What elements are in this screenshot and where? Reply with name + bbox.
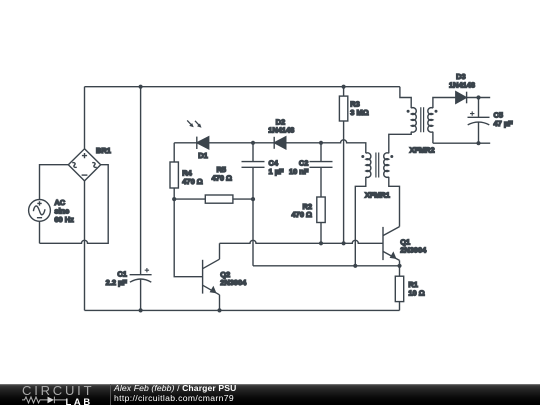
wire: XFMR2 primary bottom to XFMR1 secondary top xyxy=(389,132,411,154)
XFMR2 polarity dot secondary xyxy=(435,110,438,113)
wire: R1 bottom lead xyxy=(399,302,401,311)
node: emitter rail / R1 xyxy=(397,264,401,268)
wire: C1 top lead from top rail xyxy=(140,87,142,275)
transistor Q1 (2N3904 NPN) xyxy=(383,227,400,261)
wire: XFMR2 secondary bottom lead xyxy=(432,132,434,144)
wire: C5 top lead xyxy=(478,98,480,118)
node: D2 / C2 xyxy=(319,141,323,145)
node: base rail / R2 xyxy=(319,241,323,245)
svg-text:10 Ω: 10 Ω xyxy=(408,288,424,297)
node: top rail / R3 xyxy=(342,85,346,89)
wire: C4 bottom lead xyxy=(252,167,254,199)
wire: Q2 emitter lead xyxy=(219,295,221,311)
transformer XFMR1 xyxy=(366,153,371,177)
transformer XFMR2 primary winding xyxy=(411,108,416,133)
wire: top rail xyxy=(85,86,400,88)
svg-text:1N4148: 1N4148 xyxy=(268,125,294,134)
svg-text:3 MΩ: 3 MΩ xyxy=(350,108,368,117)
wire: XFMR1 secondary bottom to Q1 collector xyxy=(389,177,400,227)
svg-text:470 Ω: 470 Ω xyxy=(182,177,202,186)
wire: D3 cathode to output top xyxy=(467,97,491,99)
wire: R4 top lead xyxy=(173,143,175,162)
wire: AC source top lead to BR1 left vertex xyxy=(40,165,69,200)
XFMR1 polarity dot secondary xyxy=(390,155,393,158)
wire: R2 bottom lead xyxy=(320,223,322,244)
CircuitLab logo LAB xyxy=(66,397,93,405)
node: bottom rail / C1 xyxy=(139,308,143,312)
wire: C4 top lead xyxy=(252,143,254,162)
wire: C1 bottom lead xyxy=(140,279,142,310)
node: base rail / R3 xyxy=(342,241,346,245)
wire: C2 top lead xyxy=(320,143,322,162)
resistor R3 xyxy=(339,96,347,121)
wire: R1 top lead xyxy=(399,266,401,276)
svg-text:470 Ω: 470 Ω xyxy=(212,174,232,183)
footer divider xyxy=(110,384,111,405)
wire: AC source bottom lead xyxy=(39,221,41,243)
footer bar xyxy=(0,384,540,405)
capacitor C5 (polarized) xyxy=(468,111,490,125)
svg-text:1N4148: 1N4148 xyxy=(449,80,475,89)
wire: R3 top lead xyxy=(343,87,345,96)
AC source V1 xyxy=(29,200,51,222)
resistor R2 xyxy=(317,197,325,223)
transformer XFMR2 secondary winding xyxy=(428,108,433,133)
resistor R4 xyxy=(170,162,178,188)
node: D1-D2 / C4 xyxy=(251,141,255,145)
wire: output bottom rail xyxy=(433,142,490,144)
diode D2 xyxy=(274,137,286,149)
capacitor C4 xyxy=(242,162,265,168)
wire: C5 bottom lead xyxy=(478,122,480,143)
bridge rectifier BR1 xyxy=(68,149,100,181)
node: top rail / C1 xyxy=(139,85,143,89)
svg-text:1 µF: 1 µF xyxy=(269,167,284,176)
wire: R5 right lead xyxy=(233,198,253,200)
resistor R1 xyxy=(395,276,403,301)
svg-text:2N3904: 2N3904 xyxy=(220,278,247,287)
wire: XFMR2 primary top lead xyxy=(400,87,411,108)
wire: C4 node down to emitter rail xyxy=(252,199,254,266)
resistor R5 xyxy=(205,195,233,203)
node: output bottom / C5 xyxy=(476,141,480,145)
svg-text:D1: D1 xyxy=(198,151,208,160)
capacitor C2 xyxy=(310,162,333,168)
wire: bottom rail xyxy=(85,309,400,311)
wire: Q2 collector lead xyxy=(219,243,221,259)
node: R5 / C4 xyxy=(251,197,255,201)
footer title text xyxy=(114,384,236,403)
wire: R5 left lead xyxy=(174,198,205,200)
wire: Q1 emitter lead xyxy=(399,260,401,265)
node: bottom rail / Q2 emitter xyxy=(217,308,221,312)
diode D3 xyxy=(456,92,467,104)
transformer XFMR1 core xyxy=(376,153,379,178)
LED D1 xyxy=(187,120,209,149)
svg-text:60 Hz: 60 Hz xyxy=(54,215,74,224)
wire: R3 bottom lead down to base rail xyxy=(343,121,345,243)
wire: XFMR1 primary bottom lead to emitter rail xyxy=(355,177,366,266)
svg-text:BR1: BR1 xyxy=(96,146,111,155)
svg-text:47 µF: 47 µF xyxy=(494,119,514,128)
node: R4 / R5 xyxy=(172,197,176,201)
CircuitLab logo resistor-diode glyph xyxy=(22,395,68,405)
XFMR1 polarity dot primary xyxy=(361,155,364,158)
svg-text:10 nF: 10 nF xyxy=(289,167,309,176)
transistor Q2 (2N3904 NPN) xyxy=(203,259,220,295)
node: emitter rail / XFMR1 xyxy=(353,264,357,268)
svg-text:2.2 µF: 2.2 µF xyxy=(106,278,128,287)
svg-text:XFMR1: XFMR1 xyxy=(365,191,390,200)
transformer XFMR1 secondary winding xyxy=(384,153,389,178)
wire: XFMR2 secondary top lead to D3 xyxy=(433,98,456,109)
CircuitLab logo wordmark xyxy=(22,384,94,397)
svg-text:470 Ω: 470 Ω xyxy=(292,210,312,219)
wire: BR1 bottom (negative) lead xyxy=(84,181,86,311)
svg-text:XFMR2: XFMR2 xyxy=(409,146,434,155)
svg-text:2N3904: 2N3904 xyxy=(400,246,427,255)
capacitor C1 (polarized) xyxy=(130,268,152,282)
wire: D1/D2 horizontal with hop over R3 lead xyxy=(174,140,366,154)
wire: base rail Q2 collector to Q1 base with two hops xyxy=(220,240,384,243)
wire: C2 bottom lead to R2 xyxy=(320,167,322,197)
transformer XFMR2 core xyxy=(421,107,424,132)
XFMR2 polarity dot primary xyxy=(407,110,410,113)
wire: AC return with hop over BR1 negative lead xyxy=(40,165,109,244)
wire: R4 bottom lead xyxy=(173,188,175,199)
wire: emitter rail to Q1 emitter xyxy=(253,265,400,267)
wire: BR1 top lead xyxy=(84,87,86,149)
node: D3 / C5 top xyxy=(476,95,480,99)
wire: R4/R5 node down to Q2 base xyxy=(174,199,202,277)
